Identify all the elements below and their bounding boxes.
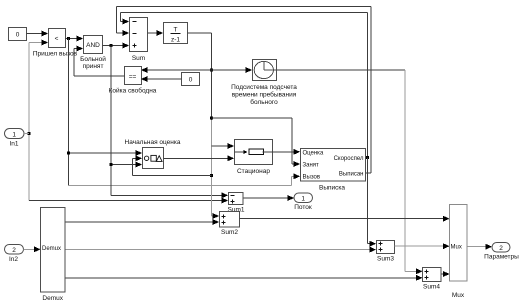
wire Sum4 output to Mux input 3	[442, 271, 450, 277]
svg-text:2: 2	[12, 247, 16, 254]
node junction on Скороспел output	[366, 156, 369, 159]
sum block Sum (three inputs - - +)	[130, 18, 148, 63]
signal generator block (Начальная оценка)	[125, 139, 181, 169]
constant block 0 (for ==)	[182, 73, 200, 86]
wire feedback inner: Скороспел up over to Sum input 1	[121, 13, 368, 158]
wire relational branch down, to signal generator input 1 and to Вызов port	[69, 39, 301, 186]
wire feedback: Скороспел down to Sum3 input 1	[367, 158, 376, 247]
node junction integrator bus at y70	[210, 69, 213, 72]
svg-text:In2: In2	[9, 256, 18, 263]
constant block 0 (top-left)	[9, 28, 27, 41]
wire bus branch to Стационар input 1	[212, 143, 234, 149]
wire Mux output to port 2 Параметры	[468, 244, 493, 250]
wire Sum output to discrete integrator	[148, 30, 164, 36]
node junction at In1 output	[28, 132, 31, 135]
wire Sum2 output to Mux input 1	[240, 216, 450, 222]
svg-text:1: 1	[301, 196, 305, 203]
wire AND branch down to signal generator input 3 and Sum1 input 1	[111, 46, 228, 199]
relational operator block < (Пришел вызов)	[33, 29, 78, 58]
svg-text:Вызов: Вызов	[303, 175, 321, 181]
svg-text:Стационар: Стационар	[237, 168, 270, 175]
wire In1 branch up to relational input 2	[29, 40, 48, 134]
wire bus branch right to clock subsystem input	[212, 67, 252, 73]
svg-text:1: 1	[12, 131, 16, 138]
wire integrator output right then down the main bus to Sum2 input 1	[188, 33, 220, 219]
output port 1 Поток	[294, 193, 313, 211]
wire bus branch left to == input 1	[141, 67, 212, 73]
wire bus branch loop back to signal generator input 2	[133, 155, 212, 175]
wire Стационар output to Выписка Оценка input	[273, 149, 301, 155]
svg-text:Койка свободна: Койка свободна	[109, 87, 157, 95]
svg-text:Mux: Mux	[452, 292, 465, 299]
svg-text:<: <	[55, 36, 59, 43]
wire relational output to AND input 1 with branch node	[66, 36, 84, 42]
svg-text:AND: AND	[86, 42, 100, 49]
svg-text:Занят: Занят	[303, 163, 320, 169]
wire signal generator output to Стационар input 2	[164, 155, 235, 161]
mux block Mux	[450, 205, 468, 300]
wire Sum3 output to Mux input 2	[395, 243, 450, 249]
svg-text:Параметры: Параметры	[484, 254, 519, 261]
svg-text:Sum3: Sum3	[377, 256, 394, 263]
svg-text:Начальная оценка: Начальная оценка	[125, 139, 181, 146]
subsystem block Выписка	[301, 149, 366, 192]
wire In2 to Demux	[24, 246, 41, 252]
node junction on relational branch at signal generator input 1	[67, 152, 70, 155]
svg-text:z-1: z-1	[171, 37, 180, 44]
wire constant 0 to == input 2	[141, 76, 182, 82]
node junction integrator bus at y175.5	[210, 174, 213, 177]
node junction on AND output	[110, 44, 113, 47]
svg-text:Выписан: Выписан	[339, 172, 364, 178]
svg-text:Sum4: Sum4	[423, 284, 440, 291]
wire In1 branch down to Sum1 input 2	[29, 134, 228, 204]
svg-text:Поток: Поток	[294, 204, 312, 211]
subsystem block Стационар	[235, 140, 273, 176]
svg-text:Sum2: Sum2	[221, 229, 238, 236]
svg-text:Скороспел: Скороспел	[334, 156, 364, 162]
node junction integrator bus at y118	[210, 116, 213, 119]
svg-text:Demux: Demux	[42, 246, 61, 252]
wire constant0 to relational operator	[27, 31, 49, 37]
svg-text:In1: In1	[9, 141, 18, 148]
logical operator block AND (Больной принят)	[80, 36, 106, 71]
svg-text:Mux: Mux	[451, 245, 462, 251]
svg-text:T: T	[174, 27, 178, 34]
output port 2 Параметры	[484, 243, 519, 261]
wire == output to AND input 2	[74, 46, 125, 77]
wire bus branch to Занят input of Выписка	[212, 118, 300, 167]
svg-text:2: 2	[499, 245, 503, 252]
sum block Sum4 (+ +)	[423, 268, 442, 291]
svg-text:Выписка: Выписка	[319, 185, 345, 192]
svg-text:Sum: Sum	[132, 55, 145, 62]
wire Demux output 2 to Sum3 input 2	[66, 247, 377, 253]
input port In2	[5, 245, 24, 264]
svg-text:Оценка: Оценка	[303, 151, 324, 157]
svg-text:Demux: Demux	[42, 295, 63, 302]
svg-text:Пришел вызов: Пришел вызов	[33, 51, 78, 58]
wire feedback outer: Выписан up over to Sum input 2	[117, 6, 371, 173]
node junction on relational output	[67, 37, 70, 40]
svg-text:==: ==	[129, 74, 137, 81]
wire AND output to Sum input 3	[103, 43, 130, 49]
sum block Sum2 (+ +)	[220, 212, 240, 237]
svg-text:принят: принят	[83, 63, 104, 70]
svg-text:Подсистема подсчета: Подсистема подсчета	[231, 84, 297, 91]
svg-text:времени пребывания: времени пребывания	[232, 91, 297, 99]
demux block Demux	[41, 208, 66, 303]
relational operator block == (Койка свободна, mirrored)	[109, 67, 157, 95]
wire Sum1 output to Поток port	[244, 195, 295, 201]
sum block Sum1 (- +)	[228, 193, 245, 214]
input port In1	[5, 129, 30, 148]
svg-text:0: 0	[16, 32, 20, 39]
svg-text:0: 0	[189, 77, 193, 84]
svg-text:больного: больного	[250, 98, 278, 106]
wire clock output right then down to Sum4 input 1	[277, 70, 423, 274]
wire Demux output 3 to Sum4 input 2	[66, 275, 423, 281]
subsystem clock block (Подсистема подсчета времени пребывания больного)	[231, 60, 297, 107]
sum block Sum3 (+ +)	[377, 241, 395, 263]
discrete-time integrator block T/z-1	[164, 23, 188, 44]
node junction on AND branch at signal generator input 3	[110, 163, 113, 166]
svg-text:Больной: Больной	[80, 55, 106, 63]
wire Demux output 1 to Sum2 input 2	[66, 219, 220, 225]
